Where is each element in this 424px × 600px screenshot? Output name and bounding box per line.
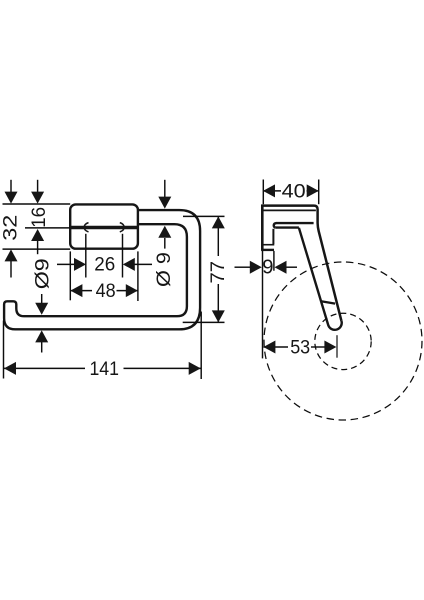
roll-holder tube outline (front view) [4,210,200,329]
arrow 26 right [123,258,135,271]
arrow 16 bottom [31,229,44,241]
tube lower edge through plate (slot line) [70,226,138,230]
arrow 48 left [70,284,82,297]
dim 32 tails [10,180,12,193]
side view group [261,204,342,329]
arrow 32 bottom [5,249,18,261]
left dia 9 tails [41,294,43,304]
arrow 9 right [275,261,287,274]
arrow 40 right [307,184,319,197]
extension line plate bottom [3,248,71,250]
arrowheads [4,184,336,375]
arrow dia9 right top [158,197,171,209]
arrow dia9 right bottom [158,226,171,238]
cover plate top (side view) [262,206,341,321]
horizontal tube rounded end cap (side view) [274,223,276,228]
dim 141 line [4,367,85,369]
left screw hole arc [84,223,88,232]
extension line plate top [3,203,71,205]
diagonal tube with rounded tip (side view) [299,228,342,330]
dim 16 tails [37,180,39,193]
dim 53 line [263,346,288,348]
roll centre line [336,335,338,358]
arrow 77 top [212,216,225,228]
dim 48 line [70,290,92,292]
right dia 9 tails [164,180,166,197]
horizontal tube bottom edge (side view) [276,226,299,228]
arrow 16 top [31,192,44,204]
svg-text:26: 26 [94,254,115,276]
arrow 141 left [4,362,16,375]
dim 9 leaders [235,266,251,268]
svg-text:32: 32 [0,215,21,241]
svg-text:9: 9 [262,256,273,279]
wall plate right edge (side view) [272,229,274,244]
svg-text:Ø9: Ø9 [31,258,53,289]
wall plate foot step line (side view) [263,244,274,246]
toilet roll outer circle (dashed) [264,262,422,420]
arrow 53 right [324,341,336,354]
wall plate foot bottom (side view) [261,249,274,251]
cover plate lower edge (side view) [264,209,316,211]
svg-text:48: 48 [96,280,116,302]
extension line screw axis [25,227,70,229]
dimension texts [0,180,310,380]
dim 77 line [217,216,219,256]
wall plate left edge (side view) [261,204,264,250]
svg-text:141: 141 [89,358,119,380]
dim 26 leaders [57,263,75,265]
arrow 40 left [263,184,275,197]
svg-text:Ø 9: Ø 9 [153,252,175,287]
arrow 141 right [189,362,201,375]
arrow 32 top [5,192,18,204]
arrow 9 left [250,261,262,274]
dim 40 extension lines [262,180,264,205]
dim 40 line [264,190,282,192]
toilet roll core circle (dashed) [315,313,371,369]
transverse joint line on tube (side view) [321,301,335,303]
svg-text:53: 53 [290,336,310,358]
arrow 26 left [74,258,86,271]
svg-text:40: 40 [282,180,306,202]
arrow 48 right [126,284,138,297]
svg-text:16: 16 [28,207,50,228]
dimension graphics [3,180,423,421]
wall plate (front view) [70,204,138,248]
right screw hole arc [120,223,124,232]
hole extension lines [85,234,87,278]
front view group [4,204,200,329]
dim 9 extension lines [262,251,264,359]
dim 77 extension lines [183,215,225,217]
dim 141 extension lines [3,321,5,379]
arrow dia9 left top [35,303,48,315]
arrow 77 bottom [212,310,225,322]
arrow dia9 left bottom [35,330,48,342]
arrow 53 left [263,341,275,354]
horizontal tube top edge (side view) [276,222,314,224]
plate edge extension lines [69,251,71,300]
svg-text:77: 77 [207,261,229,284]
